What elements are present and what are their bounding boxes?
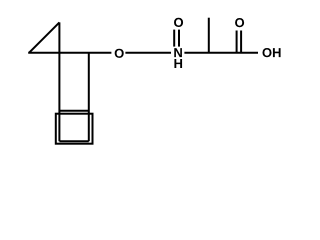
O of OH label [262, 48, 271, 57]
chain segment N to OH [184, 52, 258, 54]
O label above carbonyl [235, 18, 244, 27]
cage corner connector bottom-right [92, 143, 94, 146]
N=O double bond [173, 30, 175, 47]
chain segment O to N [125, 52, 171, 54]
ether O label [115, 49, 124, 58]
N label [174, 48, 182, 57]
C=O double bond [236, 31, 238, 53]
outer square (cage front ring) [56, 114, 93, 144]
H label under N [174, 59, 182, 68]
cyclopropane hypotenuse [29, 22, 59, 52]
main chain horizontal left segment [28, 52, 111, 54]
vertical from chain to cage (right) [88, 53, 90, 141]
O label above N [174, 18, 183, 27]
inner square (cage back ring) top edge [59, 110, 88, 112]
H of OH label [273, 48, 281, 57]
inner square (cage back ring) bottom edge [59, 140, 88, 142]
methyl branch vertical [208, 18, 210, 53]
long vertical from apex to cage (left) [58, 22, 60, 141]
